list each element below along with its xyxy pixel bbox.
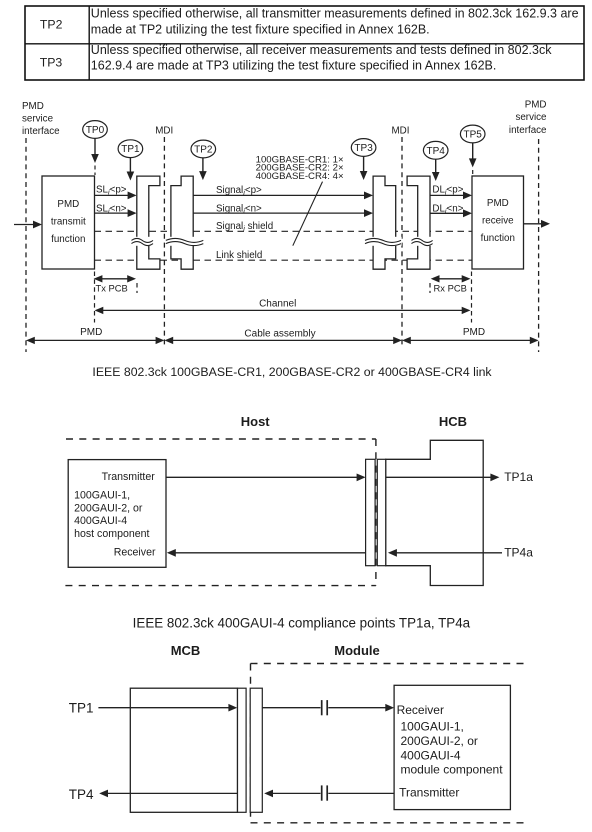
- wire input into PMD transmit function: [14, 221, 42, 229]
- wire Link shield (dashed): [95, 259, 473, 261]
- PMD extent marker (left): [26, 327, 164, 344]
- Rx PCB extent marker: [430, 272, 472, 323]
- MDI connector right pair: cable-side plug: [373, 176, 396, 269]
- svg-text:PMD: PMD: [487, 198, 509, 209]
- wire MCB to TP4: [99, 790, 237, 798]
- table cell TP3: [40, 43, 552, 73]
- MDI dashed boundary (right) with label: [392, 125, 410, 346]
- wire DL_i<n> with label: [430, 204, 472, 218]
- svg-text:Receiver: Receiver: [397, 703, 444, 717]
- svg-text:interface: interface: [509, 125, 547, 136]
- svg-text:PMD: PMD: [463, 327, 485, 338]
- svg-text:MDI: MDI: [392, 125, 410, 136]
- test point TP3: [351, 139, 376, 180]
- table cell TP2: [40, 7, 579, 37]
- svg-text:TP5: TP5: [464, 130, 483, 141]
- Host dashed boundary: [65, 439, 376, 586]
- wire Signal_i<n> with label: [193, 204, 373, 218]
- capacitor C2 (AC coupling, bottom lane): [322, 785, 328, 800]
- svg-text:TP2: TP2: [40, 18, 63, 32]
- svg-text:host component: host component: [74, 528, 149, 540]
- PMD service interface dashed boundary (left): [25, 138, 27, 352]
- svg-text:100GAUI-1,: 100GAUI-1,: [401, 720, 464, 734]
- svg-text:TP0: TP0: [86, 125, 105, 136]
- svg-text:TP3: TP3: [354, 143, 373, 154]
- wire Signal_i shield (dashed): [95, 230, 473, 232]
- svg-text:MDI: MDI: [155, 125, 173, 136]
- svg-text:Link shield: Link shield: [216, 250, 262, 261]
- wire Transmitter to capacitor (bottom): [328, 792, 394, 794]
- svg-text:Cable assembly: Cable assembly: [244, 328, 315, 339]
- svg-text:Rx PCB: Rx PCB: [434, 282, 467, 293]
- Module dashed boundary: [251, 664, 526, 823]
- svg-text:TP3: TP3: [40, 56, 63, 70]
- test point TP2: [191, 140, 216, 180]
- svg-text:200GAUI-2, or: 200GAUI-2, or: [401, 734, 478, 748]
- svg-text:TP4: TP4: [427, 146, 446, 157]
- svg-text:transmit: transmit: [51, 216, 86, 227]
- break marks (waves) on left connector pair: [130, 237, 205, 246]
- svg-text:Channel: Channel: [259, 299, 296, 310]
- svg-text:function: function: [481, 233, 515, 244]
- svg-text:Tx PCB: Tx PCB: [96, 282, 128, 293]
- svg-text:Receiver: Receiver: [114, 546, 156, 558]
- svg-text:Module: Module: [334, 643, 380, 658]
- wire TP4a into HCB: [388, 546, 533, 560]
- table TP2/TP3 test point definitions: [25, 6, 584, 80]
- label lane multiplier 100GBASE-CR1/CR2/CR4: [256, 154, 344, 181]
- MCB/module mating connector (two halves): [238, 688, 263, 812]
- svg-text:IEEE 802.3ck 400GAUI-4 complia: IEEE 802.3ck 400GAUI-4 compliance points…: [133, 616, 471, 631]
- node PMD service interface (right) label: [509, 100, 547, 136]
- PMD extent marker (right): [402, 327, 539, 344]
- svg-text:interface: interface: [22, 126, 60, 137]
- svg-text:PMD: PMD: [525, 100, 547, 111]
- wire capacitor into module connector: [264, 790, 320, 798]
- svg-text:TP1: TP1: [121, 144, 140, 155]
- svg-text:TP1a: TP1a: [504, 470, 533, 484]
- test point TP0: [83, 121, 108, 175]
- test point TP4: [423, 141, 448, 181]
- Channel extent marker: [95, 299, 471, 315]
- svg-text:200GAUI-2, or: 200GAUI-2, or: [74, 502, 143, 514]
- host component block (Transmitter/Receiver): [68, 460, 166, 568]
- wire HCB to Receiver: [167, 549, 366, 557]
- PMD transmit function block: [42, 176, 95, 269]
- svg-text:MCB: MCB: [171, 643, 201, 658]
- Tx PCB extent marker: [94, 272, 137, 323]
- svg-text:Signali shield: Signali shield: [216, 221, 273, 233]
- PMD service interface dashed boundary (right): [538, 139, 540, 352]
- MDI connector right pair: host-side plug: [407, 176, 430, 269]
- wire DL_i<p> with label: [430, 185, 472, 200]
- test point TP1: [118, 140, 143, 181]
- svg-text:TP4: TP4: [69, 787, 94, 802]
- HCB outline: [386, 440, 484, 585]
- svg-text:module component: module component: [401, 763, 504, 777]
- MDI connector left pair: host-side plug: [137, 176, 160, 269]
- wire SL_i<n> with label: [95, 203, 137, 217]
- svg-text:Host: Host: [241, 414, 271, 429]
- PMD receive function block: [472, 176, 524, 269]
- svg-text:TP2: TP2: [194, 145, 213, 156]
- svg-text:Unless specified otherwise, al: Unless specified otherwise, all receiver…: [91, 43, 552, 57]
- svg-text:400GAUI-4: 400GAUI-4: [401, 748, 461, 762]
- node PMD service interface (left) label: [22, 101, 60, 137]
- module component block (Receiver/Transmitter): [394, 685, 510, 809]
- wire output from PMD receive function: [524, 220, 551, 228]
- svg-text:400GAUI-4: 400GAUI-4: [74, 515, 127, 527]
- svg-text:receive: receive: [482, 215, 514, 226]
- wire Transmitter to HCB: [166, 474, 366, 482]
- break marks (waves) on right connector pair: [364, 237, 435, 246]
- MDI dashed boundary (left) with label: [155, 125, 173, 346]
- svg-text:400GBASE-CR4: 4×: 400GBASE-CR4: 4×: [256, 171, 344, 182]
- wire HCB to TP1a: [386, 470, 534, 484]
- wire TP1 into MCB connector: [98, 704, 237, 712]
- capacitor C1 (AC coupling, top lane): [322, 700, 328, 715]
- svg-text:HCB: HCB: [439, 414, 467, 429]
- wire capacitor to Receiver: [328, 704, 394, 712]
- MDI connector left pair: cable-side plug: [171, 176, 193, 269]
- svg-text:service: service: [515, 112, 547, 123]
- svg-text:TP1: TP1: [69, 701, 94, 716]
- svg-text:162.9.4 are made at TP3 utiliz: 162.9.4 are made at TP3 utilizing the te…: [91, 59, 497, 73]
- Cable assembly extent marker: [164, 328, 402, 344]
- HCB mating connector (two halves): [366, 459, 386, 565]
- svg-text:made at TP2 utilizing the test: made at TP2 utilizing the test fixture s…: [91, 23, 430, 37]
- svg-text:PMD: PMD: [22, 101, 44, 112]
- svg-text:PMD: PMD: [80, 327, 102, 338]
- svg-text:TP4a: TP4a: [504, 546, 533, 560]
- svg-text:Transmitter: Transmitter: [102, 471, 156, 483]
- MCB block: [130, 688, 237, 812]
- svg-text:100GAUI-1,: 100GAUI-1,: [74, 490, 130, 502]
- svg-text:Unless specified otherwise, al: Unless specified otherwise, all transmit…: [91, 7, 579, 21]
- wire SL_i<p> with label: [95, 185, 137, 200]
- svg-text:Transmitter: Transmitter: [399, 786, 459, 800]
- svg-text:IEEE 802.3ck 100GBASE-CR1, 200: IEEE 802.3ck 100GBASE-CR1, 200GBASE-CR2 …: [92, 365, 492, 379]
- svg-text:service: service: [22, 114, 54, 125]
- svg-text:PMD: PMD: [57, 199, 79, 210]
- wire Signal_i<p> with label: [193, 185, 373, 200]
- test point TP5: [460, 125, 485, 175]
- wire connector to capacitor (top): [262, 707, 320, 709]
- lane-count slash across signal wires: [293, 182, 323, 246]
- svg-text:function: function: [51, 234, 85, 245]
